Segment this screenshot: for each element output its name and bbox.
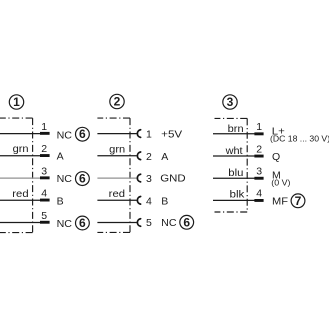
svg-text:1: 1 <box>146 129 152 141</box>
svg-text:1: 1 <box>13 95 20 109</box>
svg-text:grn: grn <box>13 143 29 155</box>
svg-text:4: 4 <box>256 188 262 200</box>
svg-text:GND: GND <box>160 173 186 185</box>
svg-text:3: 3 <box>256 166 262 178</box>
svg-text:2: 2 <box>114 95 121 109</box>
svg-text:B: B <box>57 195 64 207</box>
svg-text:4: 4 <box>146 195 152 207</box>
svg-text:NC: NC <box>161 217 177 229</box>
svg-text:6: 6 <box>79 127 86 141</box>
svg-text:4: 4 <box>41 188 47 200</box>
svg-text:5: 5 <box>41 210 47 222</box>
svg-text:3: 3 <box>146 173 152 185</box>
svg-text:red: red <box>109 188 125 200</box>
svg-text:1: 1 <box>41 121 47 133</box>
svg-text:blk: blk <box>230 189 246 201</box>
svg-text:A: A <box>57 151 64 163</box>
svg-text:red: red <box>12 188 28 200</box>
svg-text:6: 6 <box>79 216 86 230</box>
svg-text:1: 1 <box>256 121 262 133</box>
svg-text:NC: NC <box>57 173 73 185</box>
svg-text:NC: NC <box>57 129 73 141</box>
svg-text:2: 2 <box>41 143 47 155</box>
svg-text:blu: blu <box>228 167 243 179</box>
svg-text:A: A <box>161 151 168 163</box>
svg-text:2: 2 <box>146 151 152 163</box>
svg-text:NC: NC <box>57 218 73 230</box>
svg-text:(0 V): (0 V) <box>271 178 290 187</box>
svg-text:7: 7 <box>295 194 302 208</box>
svg-text:MF: MF <box>272 196 288 208</box>
svg-text:6: 6 <box>79 172 86 186</box>
svg-text:2: 2 <box>256 143 262 155</box>
svg-text:brn: brn <box>228 123 244 135</box>
svg-text:6: 6 <box>183 215 190 229</box>
svg-text:grn: grn <box>109 144 125 156</box>
svg-text:+5V: +5V <box>161 129 182 141</box>
svg-text:3: 3 <box>41 165 47 177</box>
svg-text:wht: wht <box>225 145 243 157</box>
svg-text:B: B <box>161 195 168 207</box>
svg-text:(DC 18 ... 30 V): (DC 18 ... 30 V) <box>270 134 329 143</box>
svg-text:Q: Q <box>272 151 280 163</box>
svg-text:5: 5 <box>146 217 152 229</box>
svg-text:3: 3 <box>227 95 234 109</box>
